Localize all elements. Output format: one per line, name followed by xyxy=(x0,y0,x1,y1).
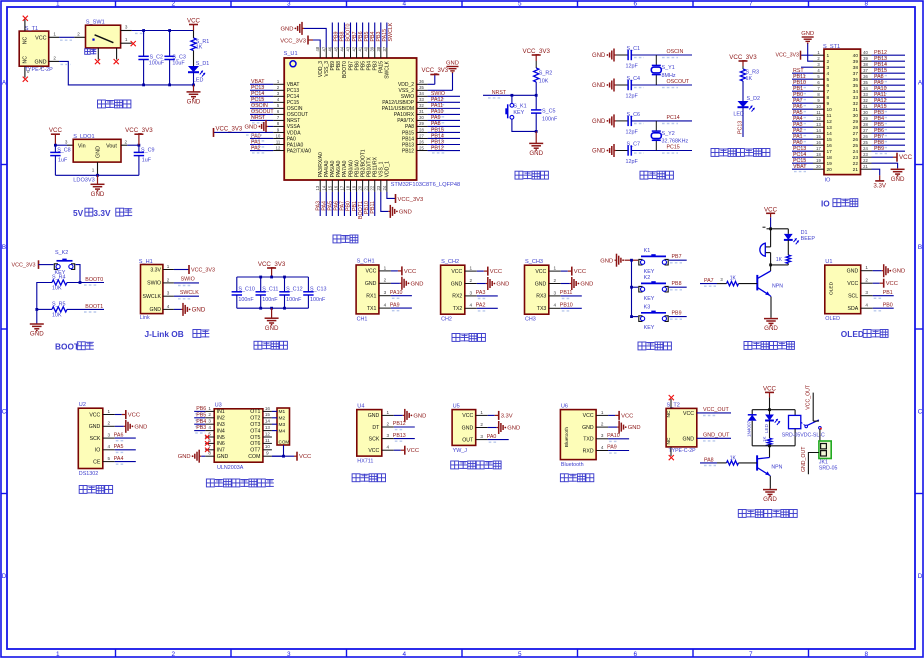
power VCC at S_CH2 pin 1 xyxy=(477,270,484,272)
svg-text:IN3: IN3 xyxy=(217,422,225,428)
svg-text:PB9: PB9 xyxy=(874,146,884,152)
pin T1 VCC pin 1 xyxy=(49,36,59,38)
svg-text:B: B xyxy=(918,244,922,251)
svg-text:33: 33 xyxy=(853,95,859,101)
svg-text:LED: LED xyxy=(193,78,204,84)
wire D2 to PC13 net xyxy=(742,108,744,138)
svg-text:100uF: 100uF xyxy=(149,61,165,67)
wire+net PB13 at U4 pin 3 xyxy=(394,438,415,440)
wire+net PA15 ST1 pin 31 xyxy=(872,108,906,110)
svg-text:3: 3 xyxy=(287,1,291,8)
wire+net PB11 ST1 pin 5 xyxy=(792,78,813,80)
svg-text:PB0: PB0 xyxy=(883,302,893,308)
svg-text:TXD: TXD xyxy=(583,437,594,443)
svg-text:13: 13 xyxy=(315,185,320,190)
svg-text:S_C11: S_C11 xyxy=(262,287,278,293)
wire JK1 pin2 to GND_OUT xyxy=(808,453,819,475)
svg-text:10: 10 xyxy=(265,444,271,449)
svg-text:8: 8 xyxy=(208,451,211,456)
svg-text:OLED: OLED xyxy=(841,329,864,339)
svg-text:14: 14 xyxy=(321,185,326,190)
svg-text:5: 5 xyxy=(108,456,111,461)
pin U3 pin 2 IN2 xyxy=(205,417,214,419)
pin U1 pin 31 PA10/RX xyxy=(417,113,428,115)
svg-text:VCC: VCC xyxy=(404,269,416,275)
pin U1 pin 30 PA9/TX xyxy=(417,119,428,121)
svg-text:40: 40 xyxy=(364,46,369,51)
wire+net PA6 ST1 pin 10 xyxy=(792,108,813,110)
wire+net label PB4 at U1 top xyxy=(368,23,370,48)
svg-text:PB12: PB12 xyxy=(431,145,444,151)
pin U1 pin 34 SWIO xyxy=(417,95,428,97)
svg-text:VCC: VCC xyxy=(583,413,594,419)
svg-text:S_C2: S_C2 xyxy=(150,54,164,60)
svg-text:30: 30 xyxy=(863,110,868,115)
wire+net PB3 ST1 pin 30 xyxy=(872,114,906,116)
svg-text:IN5: IN5 xyxy=(217,435,225,441)
svg-text:14: 14 xyxy=(827,131,833,137)
svg-text:20: 20 xyxy=(816,164,821,169)
svg-text:D1: D1 xyxy=(801,230,808,236)
pin ST1 pin 18 xyxy=(813,156,824,158)
ground at U6 pin 2 xyxy=(608,426,617,428)
wire+net PB12 at U4 pin 2 xyxy=(394,426,415,428)
wire+net PA9 ST1 pin 35 xyxy=(872,84,906,86)
svg-text:17: 17 xyxy=(816,146,821,151)
svg-text:K3: K3 xyxy=(644,305,651,311)
svg-text:3: 3 xyxy=(108,433,111,438)
svg-text:VCC: VCC xyxy=(535,269,546,275)
svg-text:VCC: VCC xyxy=(365,269,376,275)
svg-text:VCC: VCC xyxy=(187,18,201,25)
svg-text:VDD_1: VDD_1 xyxy=(385,161,391,177)
svg-text:31: 31 xyxy=(419,109,424,114)
wire T1 VCC to SW1 xyxy=(59,36,74,38)
pushbutton K1 KEY reset xyxy=(510,103,514,107)
svg-text:VCC_3V3: VCC_3V3 xyxy=(191,268,215,274)
svg-text:45: 45 xyxy=(333,46,338,51)
svg-text:23: 23 xyxy=(376,185,381,190)
wire+net PA7 to alarm xyxy=(700,283,717,285)
svg-text:VCC_3V3: VCC_3V3 xyxy=(775,53,799,59)
wire+net PB0 ST1 pin 8 xyxy=(792,96,813,98)
wire+net PA11 ST1 pin 33 xyxy=(872,96,906,98)
pin U1 pin 46 PB9 xyxy=(331,48,333,59)
svg-text:S_D2: S_D2 xyxy=(747,96,761,102)
pin ST1 pin 4 xyxy=(813,72,824,74)
wire+net PB8 ST1 pin 25 xyxy=(872,144,906,146)
svg-text:SRD-05VDC-SL-C: SRD-05VDC-SL-C xyxy=(782,433,825,439)
svg-text:OLED: OLED xyxy=(828,281,834,295)
svg-text:TYPE-C-2P: TYPE-C-2P xyxy=(668,448,696,454)
svg-text:6: 6 xyxy=(827,83,830,89)
transistor Q1 NPN xyxy=(756,275,758,291)
power VCC at U2 pin 1 xyxy=(115,414,122,416)
pin U1 pin 23 VSS_1 xyxy=(380,180,382,192)
power VCC_3V3 at ST1 pin 1 xyxy=(801,54,814,56)
ground GND below LDO xyxy=(97,175,99,184)
pin U3 pin 10 OT7 xyxy=(263,449,272,451)
wire+net PB3 U3 pin 4 xyxy=(194,430,205,432)
caption level detect module 液位检测模块 xyxy=(451,461,459,469)
pin ST1 pin 19 xyxy=(813,162,824,164)
svg-text:RX1: RX1 xyxy=(366,294,376,300)
svg-text:GND: GND xyxy=(149,307,161,313)
svg-text:COM: COM xyxy=(279,439,290,444)
pin U1 pin 35 VSS_2 xyxy=(417,89,428,91)
svg-text:M2: M2 xyxy=(279,416,286,422)
wire+net PA2 at S_CH2 pin 4 xyxy=(477,307,498,309)
svg-text:S_K2: S_K2 xyxy=(55,250,68,256)
svg-text:VCC: VCC xyxy=(128,413,140,419)
wire+net PA8 to relay xyxy=(700,462,717,464)
svg-text:2: 2 xyxy=(480,422,483,427)
pin U1 pin 43 PB7 xyxy=(350,48,352,59)
pin ST1 pin 14 xyxy=(813,132,824,134)
svg-text:1: 1 xyxy=(554,266,557,271)
svg-text:3: 3 xyxy=(554,290,557,295)
pin U1 pin 38 PA15 xyxy=(380,48,382,59)
svg-text:VCC_3V3: VCC_3V3 xyxy=(125,127,153,134)
pin U1 pin 22 PB11/RX xyxy=(374,180,376,192)
wire U3 OT2 to M2 xyxy=(272,417,277,419)
caption main chip 主芯片 xyxy=(333,235,341,243)
wire R4 left to GND rail xyxy=(37,283,52,325)
svg-text:8: 8 xyxy=(864,1,868,8)
svg-text:13: 13 xyxy=(827,125,833,131)
pin LDO Vin stub xyxy=(67,144,73,146)
pin ST1 pin 28 xyxy=(861,126,872,128)
svg-text:100nF: 100nF xyxy=(238,297,254,303)
caption run indicator 程序运行指示灯 xyxy=(711,149,719,157)
svg-text:20: 20 xyxy=(358,185,363,190)
svg-text:S_CH2: S_CH2 xyxy=(441,259,459,265)
wire+net label PB10 at U1 bottom xyxy=(368,192,370,216)
capacitor S_C6 12pF xyxy=(616,120,628,122)
wire OSCIN xyxy=(631,54,692,56)
wire K2 to BOOT0 node xyxy=(76,265,81,283)
svg-text:23: 23 xyxy=(863,152,868,157)
pin SW1 pin 2 xyxy=(74,36,85,38)
power VCC at S_CH1 pin 1 xyxy=(391,270,398,272)
wire+net PB4 U3 pin 3 xyxy=(194,423,205,425)
svg-text:17: 17 xyxy=(827,149,833,155)
svg-text:12: 12 xyxy=(276,145,281,150)
pin U1 pin 39 PB3 xyxy=(374,48,376,59)
pin U1 pin 1 VBAT xyxy=(273,83,284,85)
wire+net label PB3 at U1 top xyxy=(374,23,376,48)
wire VCC_3V3 to R2 xyxy=(535,61,537,68)
svg-text:VCC: VCC xyxy=(621,413,633,419)
svg-text:LED: LED xyxy=(733,111,744,117)
wire+net PB8 at K2 xyxy=(669,286,687,288)
svg-text:1: 1 xyxy=(827,53,830,59)
svg-text:VCC: VCC xyxy=(35,35,46,41)
wire Q2 emitter to GND xyxy=(769,474,772,477)
pin ST1 pin 29 xyxy=(861,120,872,122)
power VCC_3V3 at U1 pin 48 top xyxy=(313,40,320,48)
pin U1 pin 9 VDDA xyxy=(273,131,284,133)
wire VCC to relay rail xyxy=(769,397,771,409)
transistor Q2 NPN relay xyxy=(769,446,771,458)
LED D1 xyxy=(188,66,199,72)
svg-text:GND: GND xyxy=(217,454,229,460)
svg-text:13: 13 xyxy=(816,122,821,127)
wire+net label PA7 at U1 bottom xyxy=(343,192,345,216)
svg-text:12pF: 12pF xyxy=(626,64,639,70)
pin U1 pin 40 PB4 xyxy=(368,48,370,59)
ground at S_CH1 pin 2 xyxy=(391,282,400,284)
svg-text:S_R3: S_R3 xyxy=(746,70,760,76)
svg-text:U2: U2 xyxy=(79,402,86,408)
svg-text:12pF: 12pF xyxy=(626,159,639,165)
svg-text:4: 4 xyxy=(402,651,406,658)
svg-text:OT1: OT1 xyxy=(250,409,260,415)
svg-text:20: 20 xyxy=(827,167,833,173)
wire PC15 xyxy=(631,150,692,152)
svg-text:VCC: VCC xyxy=(683,411,694,417)
pin ST1 pin 25 xyxy=(861,144,872,146)
svg-text:29: 29 xyxy=(419,121,424,126)
svg-text:3: 3 xyxy=(470,290,473,295)
svg-text:2: 2 xyxy=(601,422,604,427)
wire+net PC13 ST1 pin 17 xyxy=(792,150,813,152)
pin ST1 pin 6 xyxy=(813,84,824,86)
svg-text:GND: GND xyxy=(399,209,412,215)
power VCC_3V3 filter xyxy=(271,268,273,277)
svg-text:PB11: PB11 xyxy=(560,290,573,296)
svg-text:PA0: PA0 xyxy=(487,434,497,440)
ground at U3 GND pin 8 xyxy=(201,455,205,457)
svg-text:PB5: PB5 xyxy=(196,412,206,418)
svg-text:BOOT1: BOOT1 xyxy=(85,304,103,310)
wire+net label PA4 at U1 bottom xyxy=(325,192,327,216)
svg-text:IN6: IN6 xyxy=(217,441,225,447)
svg-text:21: 21 xyxy=(853,167,859,173)
svg-text:33: 33 xyxy=(419,97,424,102)
svg-text:Link: Link xyxy=(140,315,150,321)
svg-text:14: 14 xyxy=(265,419,271,424)
svg-text:VCC: VCC xyxy=(451,269,462,275)
wire+net PB14 ST1 pin 38 xyxy=(872,66,906,68)
svg-text:35: 35 xyxy=(419,85,424,90)
svg-text:16: 16 xyxy=(827,143,833,149)
svg-text:PA5: PA5 xyxy=(114,444,124,450)
svg-text:2: 2 xyxy=(171,1,175,8)
pin U1 pin 32 PA11/USB/DM xyxy=(417,107,428,109)
svg-text:2: 2 xyxy=(108,421,111,426)
svg-text:VCC: VCC xyxy=(49,127,63,134)
wire+net PA1 ST1 pin 15 xyxy=(792,138,813,140)
capacitor S_C4 12pF xyxy=(616,84,628,86)
wire+net PB9 ST1 pin 24 xyxy=(872,150,906,152)
pin ST1 pin 23 xyxy=(861,156,872,158)
ground at U1 VSSA pin 8 xyxy=(268,125,273,127)
svg-text:RX2: RX2 xyxy=(452,294,462,300)
ground GND filter xyxy=(270,307,273,310)
caption filter circuit 滤波电路 xyxy=(254,341,262,349)
wire+net label PA10 at U1 right xyxy=(428,113,460,115)
pin ST1 pin 7 xyxy=(813,90,824,92)
pin ST1 pin 37 xyxy=(861,72,872,74)
svg-text:VCC_3V3: VCC_3V3 xyxy=(216,126,243,132)
svg-text:24: 24 xyxy=(382,185,387,190)
wire SWCLK at H1 pin3 xyxy=(174,295,199,297)
wire+net PA4 ST1 pin 12 xyxy=(792,120,813,122)
wire+net label BOOT0 at U1 top xyxy=(343,23,345,48)
wire+net PB11 at S_CH3 pin 3 xyxy=(561,295,582,297)
svg-text:Vout: Vout xyxy=(106,144,117,150)
pin U3 pin 15 OT2 xyxy=(263,417,272,419)
power VCC at U4 pin 4 xyxy=(394,449,401,451)
svg-text:PA7: PA7 xyxy=(704,278,714,284)
pin ST1 pin 38 xyxy=(861,66,872,68)
svg-text:GND: GND xyxy=(580,282,593,288)
wire key to bottom xyxy=(512,119,536,131)
svg-text:VCC: VCC xyxy=(886,281,898,287)
wire+net PB7 at K1 xyxy=(669,259,687,261)
svg-text:11: 11 xyxy=(827,113,832,119)
power VCC at U6 pin 1 xyxy=(608,414,615,416)
svg-text:VBAT: VBAT xyxy=(793,164,807,170)
wire+net label PB6 at U1 top xyxy=(356,23,358,48)
svg-text:NC: NC xyxy=(23,56,29,64)
power VCC relay xyxy=(769,392,771,397)
svg-text:6: 6 xyxy=(633,1,637,8)
svg-text:37: 37 xyxy=(853,71,859,77)
ground at U1 pin 23 VSS_1 xyxy=(381,192,389,212)
svg-text:25: 25 xyxy=(419,145,424,150)
svg-text:42: 42 xyxy=(352,46,357,51)
caption weight module 称重模块 xyxy=(352,474,360,482)
wire+net label PA8 at U1 right xyxy=(428,125,460,127)
svg-text:GND: GND xyxy=(368,413,380,419)
svg-text:VCC_3V3: VCC_3V3 xyxy=(12,263,36,269)
svg-text:Bluetooth: Bluetooth xyxy=(564,427,570,448)
buzzer B1 xyxy=(770,229,772,247)
wire U3 OT4 to M4 xyxy=(272,430,277,432)
svg-text:S_U1: S_U1 xyxy=(284,51,298,57)
svg-text:LED: LED xyxy=(764,423,769,433)
connector JK1 terminal xyxy=(819,441,831,459)
pin T1 top NC stub xyxy=(24,20,26,32)
svg-text:28: 28 xyxy=(853,125,859,131)
svg-text:GND: GND xyxy=(764,325,778,332)
svg-text:10: 10 xyxy=(276,133,281,138)
svg-text:GND_OUT: GND_OUT xyxy=(703,432,730,438)
svg-text:GND: GND xyxy=(507,426,520,432)
power VCC_3V3 wire at U1 VDDA pin 9 xyxy=(214,131,274,133)
wire U3 OT1 to M1 xyxy=(272,410,277,412)
wire+net PB5 U3 pin 2 xyxy=(194,417,205,419)
svg-text:10: 10 xyxy=(827,107,833,113)
pin U1 pin 11 PA1/A0 xyxy=(273,144,284,146)
svg-text:GND: GND xyxy=(281,26,294,32)
wire+net label PA9 at U1 right xyxy=(428,119,460,121)
svg-text:CE: CE xyxy=(93,459,101,465)
svg-text:VCC: VCC xyxy=(462,413,473,419)
pin U1 pin 19 PB1/A0 xyxy=(356,180,358,192)
wire+net PB0 at U1 pin 4 xyxy=(873,307,894,309)
svg-text:2: 2 xyxy=(53,55,56,60)
relay armature dashed link xyxy=(801,422,806,426)
pin U3 pin 6 IN6 xyxy=(205,442,214,444)
svg-text:IN7: IN7 xyxy=(217,448,225,454)
svg-text:PA2/TX/A0: PA2/TX/A0 xyxy=(287,148,312,154)
svg-text:26: 26 xyxy=(863,134,868,139)
pin ST1 pin 5 xyxy=(813,78,824,80)
svg-text:GND: GND xyxy=(91,191,105,198)
svg-text:34: 34 xyxy=(853,89,859,95)
svg-text:PB8: PB8 xyxy=(672,281,682,287)
crystal S_Y1 xyxy=(655,55,657,65)
wire+net label PB14 at U1 right xyxy=(428,137,460,139)
wire+net PC14 ST1 pin 18 xyxy=(792,156,813,158)
ground left of S_C1 xyxy=(614,54,616,56)
svg-text:2: 2 xyxy=(554,278,557,283)
wire+net label VBAT at U1 left xyxy=(250,83,273,85)
svg-text:8: 8 xyxy=(864,651,868,658)
wire R5 to BOOT1 label xyxy=(67,308,104,310)
svg-text:36: 36 xyxy=(853,77,859,83)
svg-text:15: 15 xyxy=(327,185,332,190)
wire+net label PA6 at U1 bottom xyxy=(337,192,339,216)
svg-text:32: 32 xyxy=(853,101,859,107)
svg-text:2: 2 xyxy=(865,278,868,283)
wire VCC_3V3 to K2 xyxy=(39,264,54,266)
wire+net label PA5 at U1 bottom xyxy=(331,192,333,216)
svg-text:VCC: VCC xyxy=(899,154,913,161)
svg-text:IN2: IN2 xyxy=(217,416,225,422)
pin ST1 pin 9 xyxy=(813,102,824,104)
svg-text:S_C9: S_C9 xyxy=(141,148,155,154)
svg-text:Vin: Vin xyxy=(78,144,86,150)
capacitor C9 1uF xyxy=(138,145,140,152)
power VCC_3V3 run LED xyxy=(742,61,744,66)
svg-text:12: 12 xyxy=(827,119,833,125)
pin U1 pin 24 VDD_1 xyxy=(386,180,388,192)
pin U3 pin 5 IN5 xyxy=(205,436,214,438)
svg-text:IN1: IN1 xyxy=(217,409,225,415)
svg-text:43: 43 xyxy=(346,46,351,51)
svg-text:12: 12 xyxy=(816,116,821,121)
pin U1 pin 44 BOOT0 xyxy=(343,48,345,59)
wire+net label BOOT1 at U1 bottom xyxy=(362,192,364,216)
wire+net VBAT ST1 pin 20 xyxy=(792,168,813,170)
svg-text:PA3: PA3 xyxy=(476,290,486,296)
svg-text:VCC_OUT: VCC_OUT xyxy=(703,407,729,413)
wire relay top rail xyxy=(752,409,795,411)
svg-text:U6: U6 xyxy=(561,403,568,409)
wire+net label SWIO at U1 right xyxy=(428,95,460,97)
svg-text:OT7: OT7 xyxy=(250,448,260,454)
wire branch top rail xyxy=(771,228,789,230)
svg-text:29: 29 xyxy=(853,119,859,125)
power VCC at U1 pin 2 xyxy=(873,282,880,284)
wire branch bottom rail xyxy=(787,264,789,265)
svg-text:24: 24 xyxy=(853,149,859,155)
svg-text:15: 15 xyxy=(816,134,821,139)
svg-text:GND: GND xyxy=(801,31,814,37)
svg-text:GND: GND xyxy=(847,269,859,275)
svg-text:PA4: PA4 xyxy=(114,456,124,462)
pin U3 pin 3 IN3 xyxy=(205,423,214,425)
pin ST1 pin 3 xyxy=(813,66,824,68)
pin U1 pin 17 PA7/A0 xyxy=(343,180,345,192)
wire filter top rail xyxy=(237,276,309,278)
ground at U1 pin 47 top xyxy=(304,28,326,47)
wire+net PA6 at U2 pin 3 xyxy=(115,437,136,439)
